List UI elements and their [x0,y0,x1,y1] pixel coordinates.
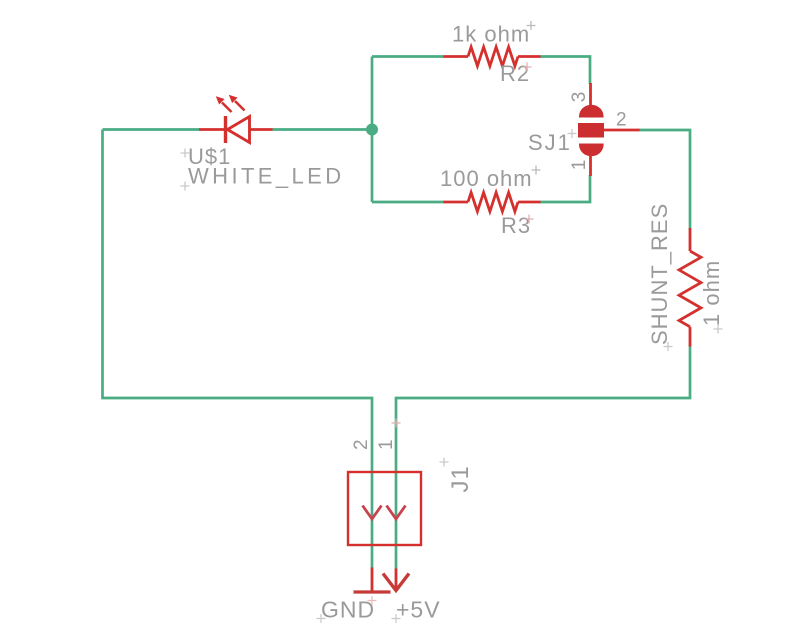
R2 name origin cross [523,63,532,72]
connector J1 pin 1 chevron [387,506,406,520]
R3 name origin cross [525,215,534,224]
wire net GND: LED anode horizontal [103,128,200,131]
svg-text:1: 1 [569,160,590,171]
wire net GND: drop to J1 pin 2 [371,397,374,569]
LED U$1 triangle [228,117,250,143]
wire net +5V: drop to J1 pin 1 [395,397,398,570]
solder jumper SJ1 pin 3 lead [589,83,592,106]
wire net N$2: R2 right segment to SJ1 pin 3 corner [540,57,590,85]
svg-text:1: 1 [376,439,397,450]
solder jumper SJ1 center pad [578,123,604,138]
supply symbol +5V arrowhead [383,574,409,591]
J1 pin 1 origin cross [392,419,401,428]
svg-text:R3: R3 [501,213,531,238]
resistor R3 lead left [444,201,469,204]
wire net +5V: shunt bottom to bottom-right corner [396,346,690,399]
resistor SHUNT_RES zigzag [679,251,701,327]
junction node at LED cathode / R2 / R3 [366,124,378,136]
svg-text:R2: R2 [500,61,530,86]
svg-text:J1: J1 [447,465,474,492]
svg-text:SJ1: SJ1 [528,130,572,155]
svg-text:SHUNT_RES: SHUNT_RES [647,203,672,345]
resistor SHUNT_RES lead bottom [689,327,692,347]
wire net GND: bottom-left horizontal [101,397,372,400]
svg-text:WHITE_LED: WHITE_LED [188,164,345,189]
GND origin cross [368,596,377,605]
SHUNT_RES value origin cross [714,325,723,334]
svg-text:3: 3 [569,92,590,103]
svg-text:2: 2 [616,110,627,131]
J1 name origin cross [440,458,449,467]
ground symbol GND bar [354,590,391,593]
svg-text:1k ohm: 1k ohm [452,22,530,47]
SHUNT_RES name origin cross [664,342,673,351]
svg-text:+5V: +5V [396,597,441,623]
resistor R3 zigzag [468,193,518,212]
svg-text:1 ohm: 1 ohm [699,260,724,326]
GND label origin cross [317,614,326,623]
resistor R2 zigzag [468,47,518,66]
wire net GND: left vertical from LED row down [101,130,104,399]
connector J1 box [348,472,421,545]
wire net N$1: R3 row left segment [372,201,444,204]
LED U$1 right lead [249,128,273,131]
solder jumper SJ1 pin 1 lead [589,155,592,176]
wire net N$1: LED cathode to junction [272,128,372,131]
resistor SHUNT_RES lead top [689,228,692,251]
resistor R2 lead right [518,55,541,58]
resistor R3 lead right [518,201,541,204]
LED U$1 left lead [199,128,226,131]
LED U$1 cathode bar [224,116,227,143]
svg-text:100 ohm: 100 ohm [440,166,533,191]
R3 value origin cross [532,166,541,175]
U$1 name origin cross [181,149,190,158]
LED U$1 light arrow 1 [222,103,232,113]
solder jumper SJ1 bottom pad [579,144,604,157]
connector J1 pin 2 chevron [363,506,382,520]
svg-text:2: 2 [351,439,372,450]
solder jumper SJ1 pin 2 lead [604,129,640,132]
resistor R2 lead left [444,55,469,58]
SJ1 name origin cross [568,129,577,138]
wire net N$1: vertical between R2 and R3 rows [371,57,374,203]
LED U$1 light arrow 2 [235,101,245,111]
wire net +5V: SJ1 pin 2 to shunt top [639,130,690,229]
solder jumper SJ1 top pad [579,105,604,118]
wire net N$3: R3 right segment to SJ1 pin 1 corner [540,175,590,202]
supply symbol +5V stub [395,569,398,590]
svg-text:GND: GND [321,597,375,623]
wire net N$1: R2 row left segment [372,55,444,58]
R2 value origin cross [527,21,536,30]
U$1 value origin cross [181,182,190,191]
ground symbol GND stub [371,568,374,593]
+5V origin cross [392,614,401,623]
